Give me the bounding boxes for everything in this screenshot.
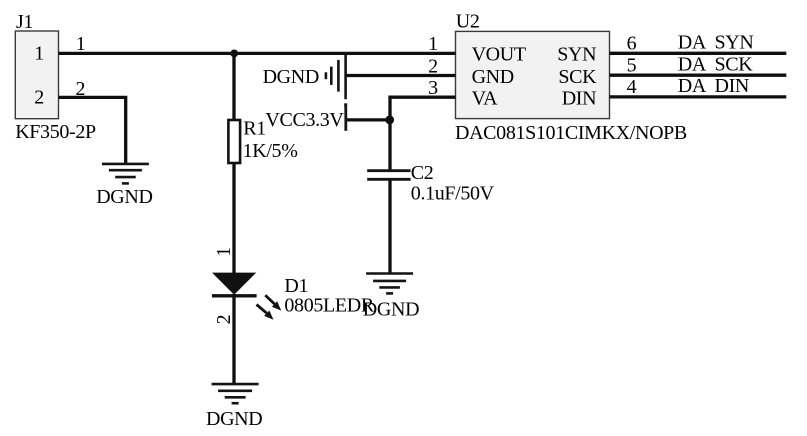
svg-text:VA: VA <box>472 88 499 110</box>
svg-text:1: 1 <box>213 247 235 257</box>
svg-text:2: 2 <box>75 78 85 100</box>
svg-text:2: 2 <box>428 55 438 77</box>
svg-text:0805LEDR: 0805LEDR <box>284 295 374 317</box>
svg-text:4: 4 <box>627 76 637 98</box>
svg-text:DAC081S101CIMKX/NOPB: DAC081S101CIMKX/NOPB <box>455 122 687 144</box>
svg-text:DIN: DIN <box>562 88 597 110</box>
svg-text:DGND: DGND <box>206 408 262 430</box>
svg-text:VCC3.3V: VCC3.3V <box>265 109 344 131</box>
svg-text:6: 6 <box>627 33 637 55</box>
svg-text:DA SCK: DA SCK <box>678 53 753 75</box>
svg-text:U2: U2 <box>456 10 480 32</box>
svg-text:J1: J1 <box>16 11 33 33</box>
svg-text:DGND: DGND <box>263 66 319 88</box>
svg-text:R1: R1 <box>243 118 266 140</box>
svg-text:1K/5%: 1K/5% <box>243 140 298 162</box>
svg-text:1: 1 <box>34 43 44 65</box>
svg-text:DA SYN: DA SYN <box>678 32 754 54</box>
svg-text:1: 1 <box>428 33 438 55</box>
svg-text:SCK: SCK <box>558 66 597 88</box>
svg-text:KF350-2P: KF350-2P <box>15 121 96 143</box>
svg-text:SYN: SYN <box>557 44 596 66</box>
svg-text:5: 5 <box>627 54 637 76</box>
svg-text:VOUT: VOUT <box>472 44 526 66</box>
svg-text:D1: D1 <box>284 275 308 297</box>
svg-text:0.1uF/50V: 0.1uF/50V <box>411 183 495 205</box>
svg-text:2: 2 <box>213 315 235 325</box>
svg-text:DA DIN: DA DIN <box>678 75 749 97</box>
svg-text:1: 1 <box>76 33 86 55</box>
svg-text:2: 2 <box>34 87 44 109</box>
svg-text:GND: GND <box>472 66 514 88</box>
svg-text:C2: C2 <box>411 162 434 184</box>
svg-text:DGND: DGND <box>363 299 419 321</box>
svg-text:3: 3 <box>428 77 438 99</box>
svg-text:DGND: DGND <box>96 186 152 208</box>
